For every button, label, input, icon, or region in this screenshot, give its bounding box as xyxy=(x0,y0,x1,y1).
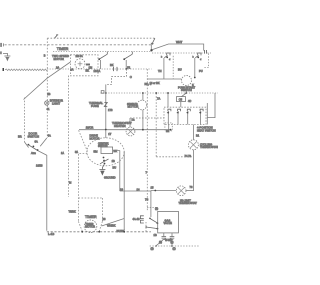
svg-text:MOTOR: MOTOR xyxy=(90,136,100,140)
heat contact 4 xyxy=(199,109,203,124)
door funnel left vertical xyxy=(24,98,26,143)
cycling thermostat circle xyxy=(188,140,198,150)
connector on rail xyxy=(114,67,118,71)
junction F1 xyxy=(126,68,128,70)
wire circle left down xyxy=(79,153,88,221)
drive motor label xyxy=(90,134,100,141)
svg-text:BU/BK: BU/BK xyxy=(117,229,125,233)
ignitor leads to rail xyxy=(156,240,172,246)
svg-text:1A: 1A xyxy=(70,68,73,72)
ground chassis left xyxy=(3,53,10,60)
svg-text:FUSE: FUSE xyxy=(91,104,99,108)
svg-text:B1: B1 xyxy=(196,134,200,138)
svg-text:16/18: 16/18 xyxy=(36,163,43,167)
svg-text:1B: 1B xyxy=(112,159,115,163)
wire C5 to heat switch xyxy=(180,102,182,108)
svg-text:C5: C5 xyxy=(179,97,183,101)
svg-text:(5): (5) xyxy=(159,241,162,244)
timer box top dotted xyxy=(53,51,152,53)
svg-text:Arm: Arm xyxy=(31,151,36,155)
svg-text:7S: 7S xyxy=(145,198,148,202)
heat contact 1 xyxy=(167,109,171,124)
door switch blades xyxy=(25,142,29,148)
svg-text:HEAT SWITCH: HEAT SWITCH xyxy=(197,128,216,132)
motor box dashed xyxy=(70,55,98,76)
svg-text:MOTOR: MOTOR xyxy=(54,57,64,61)
svg-text:BK: BK xyxy=(110,63,114,67)
between dashed vertical xyxy=(172,56,174,79)
heat sw wire from rail93 xyxy=(167,93,169,107)
big diagonal door wire xyxy=(24,62,71,100)
hi-limit label xyxy=(179,198,198,205)
S2 lead xyxy=(194,58,196,77)
svg-text:HEATER: HEATER xyxy=(114,124,126,128)
switch box inside motor circle xyxy=(101,147,113,154)
bottom right rail xyxy=(150,245,200,247)
door switch label xyxy=(28,132,40,139)
svg-text:SWITCH: SWITCH xyxy=(28,134,40,138)
connector marks on rail xyxy=(86,63,90,66)
svg-text:4C: 4C xyxy=(188,100,191,103)
gas valve left column xyxy=(150,191,152,218)
timer contact A blade xyxy=(99,54,108,59)
gas valve label xyxy=(164,219,173,226)
timer bottom box xyxy=(78,197,102,199)
ground under motor xyxy=(99,165,105,175)
wire motor box to timer left xyxy=(68,76,70,198)
svg-text:THERMOSTAT: THERMOSTAT xyxy=(179,201,198,205)
svg-text:5A: 5A xyxy=(75,151,78,154)
svg-text:WHT: WHT xyxy=(176,40,183,44)
right dotted rail y=53 xyxy=(152,52,204,54)
thermal fuse label xyxy=(89,101,103,108)
wire door to bottom xyxy=(38,151,47,231)
svg-text:1B: 1B xyxy=(47,92,50,96)
wire rail neutral dashed y=38.2 xyxy=(47,37,155,39)
node N xyxy=(0,51,1,54)
S2 blade xyxy=(195,56,198,58)
timer contact B blade xyxy=(124,54,133,59)
crossover hop xyxy=(55,35,59,38)
connector at right xyxy=(205,50,207,54)
junction dots on rail xyxy=(81,231,83,233)
timer contact B lead xyxy=(125,60,127,69)
timer contact A bracket xyxy=(106,52,108,55)
junction node xyxy=(150,49,152,51)
svg-text:7A: 7A xyxy=(157,96,160,100)
wire console left vertical dashed x=47.3 xyxy=(46,38,48,138)
svg-text:C: C xyxy=(130,75,132,79)
svg-text:74 73: 74 73 xyxy=(185,154,192,158)
svg-text:1M: 1M xyxy=(89,66,93,70)
svg-text:4A: 4A xyxy=(48,134,51,138)
right switch S2 bracket xyxy=(198,53,201,55)
svg-text:(1): (1) xyxy=(173,247,176,251)
gas valve blade 1 xyxy=(149,218,151,220)
wire down from cycling xyxy=(192,150,194,191)
drum light wire y=118 xyxy=(130,117,164,119)
centrifugal text xyxy=(98,142,109,148)
switch blade at rail A end xyxy=(151,38,155,44)
svg-text:TIMER: TIMER xyxy=(85,215,97,219)
wire rail L1 dash-dot y=44.8 xyxy=(5,44,152,46)
heat contact 3 xyxy=(186,109,190,124)
svg-text:VALVE: VALVE xyxy=(164,221,173,225)
wire right side from rail93 xyxy=(207,93,215,118)
ignitor symbols xyxy=(162,237,167,240)
wire diagonal to WHT xyxy=(152,44,203,51)
svg-text:MOTOR: MOTOR xyxy=(128,105,139,109)
timer contact B bracket xyxy=(131,52,133,55)
svg-text:2A: 2A xyxy=(56,65,59,69)
svg-text:4A-13: 4A-13 xyxy=(133,218,141,221)
node L1 xyxy=(0,43,3,47)
S1 blade xyxy=(164,56,167,58)
rail y=93 dotted xyxy=(101,92,219,94)
svg-text:WH/BK: WH/BK xyxy=(107,223,116,227)
svg-text:T5/BK: T5/BK xyxy=(69,210,76,214)
resistor box C5 xyxy=(177,97,186,102)
svg-text:L-1B: L-1B xyxy=(48,232,54,236)
bottom rail xyxy=(47,231,151,233)
wires motor right down xyxy=(113,151,125,232)
wire to C5 box xyxy=(181,86,186,97)
interior light label xyxy=(50,99,63,106)
gas valve blade 2 xyxy=(145,226,147,228)
long dashed vertical x=147.3 xyxy=(146,69,148,211)
svg-text:BK: BK xyxy=(86,69,90,73)
right edge dashed vertical xyxy=(204,54,209,68)
connector on rail93 xyxy=(101,91,104,94)
svg-text:MOTOR: MOTOR xyxy=(85,226,95,229)
diagonal from timer box xyxy=(102,219,125,227)
svg-text:BU: BU xyxy=(113,165,117,169)
svg-text:TIMER: TIMER xyxy=(57,47,69,51)
switch blade at motor bottom xyxy=(100,159,109,164)
heat switch label xyxy=(197,126,216,133)
svg-text:SWITCH: SWITCH xyxy=(98,145,108,148)
svg-text:1B: 1B xyxy=(154,233,158,237)
S1 lead xyxy=(163,58,165,79)
drum light lamp xyxy=(126,127,135,136)
interior light lamp xyxy=(45,101,49,105)
hi-limit line xyxy=(151,190,176,192)
wire lamp feed diagonal xyxy=(79,130,88,151)
svg-text:5M: 5M xyxy=(94,150,99,154)
central vertical wire xyxy=(105,84,107,138)
svg-text:GROUND: GROUND xyxy=(104,176,116,180)
svg-text:(2): (2) xyxy=(155,207,158,211)
heat contact 2 xyxy=(177,109,181,124)
wire green ground zigzag xyxy=(3,68,5,71)
svg-text:2M 3A: 2M 3A xyxy=(76,55,84,58)
rail B corner down xyxy=(150,45,152,50)
wire y=129.5 xyxy=(79,129,171,131)
svg-text:1T: 1T xyxy=(108,132,111,136)
step wire from F1 down-left xyxy=(106,69,127,84)
wire corner left y=152 xyxy=(155,93,157,157)
svg-text:1A: 1A xyxy=(97,69,100,73)
heat switch box xyxy=(164,107,206,124)
motor circle centrifugal switch xyxy=(87,138,124,166)
timer contact A lead xyxy=(100,60,102,69)
svg-text:(1): (1) xyxy=(171,241,174,244)
timer motor circle xyxy=(84,220,97,233)
svg-text:1T3: 1T3 xyxy=(108,108,113,112)
motor winding circle xyxy=(75,59,85,69)
signal motor label xyxy=(127,102,138,109)
right switch S1 bracket xyxy=(167,53,170,55)
thermal fuse symbol xyxy=(104,103,107,107)
svg-text:TH: TH xyxy=(158,69,162,73)
push to start wire xyxy=(147,78,181,80)
gas valve box xyxy=(158,211,179,233)
wire col3 to cycling thermostat xyxy=(192,125,194,140)
timer box bottom rail dotted y=69 xyxy=(47,68,152,70)
svg-text:6A: 6A xyxy=(35,140,38,144)
svg-text:PU: PU xyxy=(199,69,203,73)
svg-text:BU: BU xyxy=(178,68,182,72)
push to start label xyxy=(178,85,196,92)
thermostat heater label xyxy=(112,121,132,128)
svg-text:(2): (2) xyxy=(151,247,154,251)
hi-limit thermostat circle xyxy=(176,186,186,196)
svg-text:BR: BR xyxy=(18,135,22,139)
signal motor wire xyxy=(142,93,144,130)
svg-text:LIGHT: LIGHT xyxy=(52,101,60,105)
svg-text:RD, 4: RD, 4 xyxy=(145,82,152,86)
two speed motor label xyxy=(44,54,69,61)
wire col1 to rail xyxy=(168,125,170,130)
push to start switch circle xyxy=(182,76,192,86)
cycling thermostat label xyxy=(200,142,219,149)
ignitor stubs xyxy=(164,233,172,237)
signal motor circle xyxy=(137,100,147,110)
svg-text:THERMOSTAT: THERMOSTAT xyxy=(200,145,218,149)
svg-text:1A: 1A xyxy=(61,152,64,155)
svg-text:B2: B2 xyxy=(166,129,170,133)
dots at circle bottom xyxy=(103,157,105,159)
wire to gas valve top xyxy=(147,207,158,209)
svg-text:18/OR: 18/OR xyxy=(86,125,94,129)
